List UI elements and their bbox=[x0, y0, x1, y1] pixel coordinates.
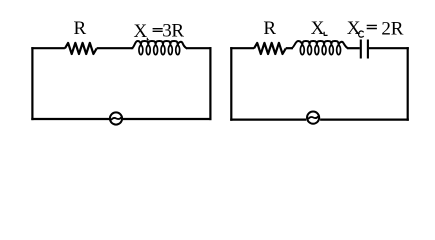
inductor XL (right circuit) winding loops bbox=[300, 45, 340, 54]
value label XL=3R: subscript L bbox=[147, 38, 149, 40]
capacitor XC=2R: right plate bbox=[367, 40, 369, 59]
svg-text:R: R bbox=[73, 18, 86, 39]
AC source (right circuit): circle bbox=[307, 112, 319, 124]
wire: left circuit bottom, source to corner bbox=[123, 118, 212, 120]
svg-text:X: X bbox=[134, 21, 148, 42]
wire: right circuit left side bbox=[230, 47, 232, 121]
resistor R (right circuit) bbox=[254, 43, 286, 54]
svg-text:X: X bbox=[311, 18, 325, 39]
svg-text:2R: 2R bbox=[381, 18, 403, 39]
wire: right circuit top, capacitor to corner bbox=[369, 47, 409, 49]
inductor XL=3R (left circuit) winding arches bbox=[132, 41, 187, 48]
AC source (right circuit): sine symbol bbox=[308, 117, 318, 119]
wire: left circuit top, inductor to corner bbox=[186, 47, 212, 49]
wire: left circuit right side bbox=[209, 47, 211, 120]
inductor XL=3R (left circuit) winding loops bbox=[139, 45, 180, 54]
inductor XL (right circuit) winding arches bbox=[291, 41, 347, 48]
value label XC=2R: equals sign bbox=[367, 25, 377, 28]
wire: right circuit bottom, source to corner bbox=[320, 118, 409, 120]
value label XL=3R: equals sign bbox=[153, 29, 163, 32]
value label XC=2R: subscript C bbox=[359, 31, 364, 37]
wire: right circuit top, resistor to inductor bbox=[286, 47, 293, 49]
wire: right circuit right side bbox=[407, 47, 409, 121]
AC source (left circuit): circle bbox=[110, 112, 122, 124]
wire: right circuit top, corner to resistor bbox=[230, 47, 254, 49]
wire: left circuit left side bbox=[31, 47, 33, 120]
resistor R (left circuit) bbox=[65, 43, 97, 54]
AC source (left circuit): sine symbol bbox=[111, 117, 121, 119]
svg-text:3R: 3R bbox=[162, 21, 184, 42]
wire: left circuit bottom, corner to source bbox=[31, 118, 109, 120]
capacitor XC=2R: left plate bbox=[360, 40, 362, 59]
wire: right circuit bottom, corner to source bbox=[230, 118, 306, 120]
wire: right circuit top, inductor to capacitor bbox=[347, 47, 360, 49]
wire: left circuit top, resistor to inductor bbox=[97, 47, 134, 49]
value label XL: subscript L bbox=[324, 32, 328, 36]
wire: left circuit top, corner to resistor bbox=[31, 47, 65, 49]
svg-text:R: R bbox=[263, 18, 276, 39]
